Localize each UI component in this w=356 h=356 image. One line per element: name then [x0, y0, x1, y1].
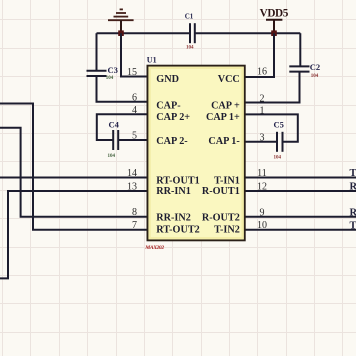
wire pin 9 (R-OUT2) to right edge	[245, 216, 356, 218]
wire from left edge down to pin 8 (RR-IN2)	[0, 128, 148, 217]
svg-text:13: 13	[127, 182, 137, 193]
capacitor C3 (value 104)	[87, 65, 118, 81]
svg-text:104: 104	[108, 154, 116, 159]
svg-text:U1: U1	[147, 56, 157, 65]
svg-text:C3: C3	[108, 65, 118, 75]
svg-text:10: 10	[257, 220, 267, 231]
svg-text:CAP 2-: CAP 2-	[156, 136, 188, 147]
svg-text:8: 8	[132, 207, 137, 218]
svg-text:R: R	[350, 208, 356, 219]
svg-text:15: 15	[127, 67, 137, 78]
wire rail corner down to C3 top plate	[96, 33, 98, 71]
svg-text:C4: C4	[109, 120, 120, 130]
svg-text:104: 104	[311, 74, 319, 79]
wire C4 right plate to pin 5 (CAP 2-)	[118, 139, 147, 141]
svg-text:RR-IN1: RR-IN1	[156, 186, 191, 197]
svg-text:C2: C2	[310, 62, 320, 72]
svg-text:11: 11	[257, 168, 267, 179]
svg-text:C1: C1	[185, 13, 194, 21]
svg-text:VDD5: VDD5	[260, 8, 289, 20]
pin numbers U1 left side (15, 6, 4, 5, 14, 13, 8, 7)	[127, 67, 137, 231]
capacitor C4 (value 104)	[108, 120, 120, 160]
svg-text:T: T	[350, 221, 356, 232]
wire rail right end down to C2 top plate	[299, 33, 301, 66]
wire top rail, VDD5 side (right of C1)	[196, 32, 301, 34]
svg-text:104: 104	[274, 155, 282, 160]
svg-text:R: R	[350, 182, 356, 193]
svg-text:RT-OUT2: RT-OUT2	[156, 225, 199, 236]
pin numbers U1 right side (16, 2, 1, 3, 11, 12, 9, 10)	[257, 67, 267, 232]
svg-text:16: 16	[257, 67, 267, 78]
svg-text:C5: C5	[274, 120, 284, 130]
svg-text:1: 1	[260, 105, 265, 116]
svg-text:12: 12	[257, 182, 267, 193]
wire pin 12 (R-OUT1) to right edge	[245, 190, 356, 192]
svg-text:T-IN2: T-IN2	[214, 225, 240, 236]
wire pin 13 (RR-IN1) left, down and out left edge	[0, 191, 148, 278]
IC U1 MAX202 body	[144, 56, 244, 251]
svg-text:104: 104	[106, 76, 114, 81]
pin names U1 left column (GND, CAP-, CAP 2+, CAP 2-, RT-OUT1, RR-IN1, RR-IN2, RT-OUT2)	[156, 74, 199, 236]
wire VDD5 junction down to pin 16 (VCC)	[245, 33, 274, 77]
wire pin 1 (CAP 1+) right and down to C5 right plate	[245, 114, 298, 141]
svg-text:4: 4	[132, 105, 137, 116]
svg-text:VCC: VCC	[218, 74, 240, 85]
wire ground junction down to pin 15 (GND)	[121, 33, 148, 76]
svg-text:CAP +: CAP +	[211, 101, 240, 112]
svg-text:104: 104	[186, 46, 194, 51]
svg-text:T-IN1: T-IN1	[214, 176, 240, 187]
power symbol VDD5	[260, 8, 289, 34]
wire C2 bottom plate to pin 2 (CAP +)	[245, 72, 300, 103]
svg-text:RR-IN2: RR-IN2	[156, 213, 191, 224]
wire top rail, ground side (left of C1)	[97, 32, 190, 34]
svg-text:CAP-: CAP-	[156, 101, 181, 112]
svg-text:MAX202: MAX202	[144, 245, 164, 251]
svg-text:7: 7	[132, 220, 137, 231]
svg-text:GND: GND	[156, 74, 179, 85]
node junction of ground symbol on rail	[118, 30, 124, 36]
wire pin 14 (RT-OUT1) to left edge	[0, 177, 148, 179]
svg-text:6: 6	[132, 92, 137, 103]
wire pin 10 (T-IN2) to right edge	[245, 229, 356, 231]
wire C3 bottom plate to pin 6 (CAP-)	[97, 76, 148, 102]
wire pin 11 (T-IN1) to right edge	[245, 177, 356, 179]
svg-text:R-OUT2: R-OUT2	[202, 213, 240, 224]
svg-text:T: T	[350, 168, 356, 179]
svg-text:CAP 1+: CAP 1+	[206, 112, 240, 123]
svg-text:2: 2	[260, 93, 265, 104]
svg-text:CAP 1-: CAP 1-	[208, 136, 240, 147]
capacitor C2 (value 104)	[289, 62, 320, 79]
wire pin 4 (CAP 2+) left and down to C4 left plate	[97, 114, 148, 140]
wire from left edge down to pin 7 (RT-OUT2)	[0, 104, 148, 230]
node junction of VDD5 on rail	[271, 30, 277, 36]
svg-text:CAP 2+: CAP 2+	[156, 112, 190, 123]
wire pin 3 (CAP 1-) to C5 left plate	[245, 141, 277, 143]
svg-text:3: 3	[260, 133, 265, 144]
capacitor C5 (value 104)	[274, 120, 284, 161]
capacitor C1 (value 104)	[185, 13, 195, 51]
svg-text:9: 9	[260, 208, 265, 219]
svg-text:14: 14	[127, 168, 137, 179]
ground (earth symbol above rail)	[108, 9, 134, 33]
svg-text:R-OUT1: R-OUT1	[202, 186, 240, 197]
pin names U1 right column (VCC, CAP +, CAP 1+, CAP 1-, T-IN1, R-OUT1, R-OUT2, T-IN2)	[202, 74, 241, 236]
svg-text:5: 5	[132, 131, 137, 142]
svg-text:RT-OUT1: RT-OUT1	[156, 176, 199, 187]
